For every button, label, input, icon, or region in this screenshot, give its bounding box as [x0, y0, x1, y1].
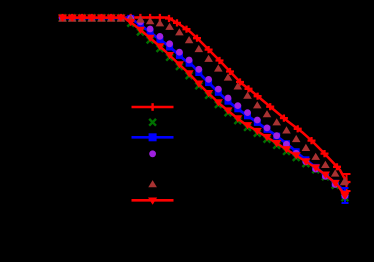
- series 3: blue line with square markers: [59, 15, 349, 204]
- legend entry 1: red errorbar sample: [132, 103, 174, 111]
- legend entry 2: green x sample: [149, 119, 156, 126]
- legend entry 4: purple circle sample: [149, 150, 156, 157]
- legend entry 3: blue line with square sample: [132, 133, 174, 141]
- series 4: purple circle markers: [59, 15, 348, 200]
- series 1: red line with plus markers and errorbars: [59, 14, 351, 191]
- series 2: green x markers: [59, 14, 348, 201]
- series 7: red line with triangle-down markers: [58, 14, 350, 199]
- legend entry 6: brown triangle sample: [148, 180, 157, 187]
- series 6: brown triangle-up markers: [58, 15, 349, 186]
- legend entry 7: red line with triangle-down sample: [132, 198, 174, 205]
